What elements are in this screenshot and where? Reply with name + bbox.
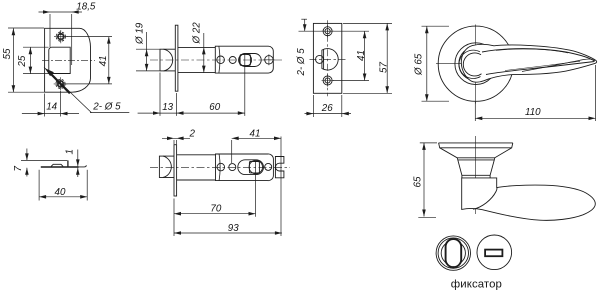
svg-text:93: 93	[228, 223, 239, 234]
svg-text:14: 14	[46, 102, 57, 113]
svg-text:40: 40	[55, 187, 66, 198]
svg-text:18,5: 18,5	[76, 2, 96, 13]
svg-text:41: 41	[250, 128, 261, 139]
svg-text:41: 41	[356, 50, 367, 61]
svg-text:7: 7	[13, 166, 24, 172]
svg-text:60: 60	[209, 102, 220, 113]
svg-text:110: 110	[525, 107, 541, 118]
svg-text:70: 70	[210, 204, 221, 215]
svg-text:65: 65	[412, 176, 423, 187]
svg-text:13: 13	[162, 102, 173, 113]
svg-text:1: 1	[64, 149, 75, 154]
svg-text:Ø 65: Ø 65	[413, 53, 424, 76]
svg-text:26: 26	[321, 103, 333, 114]
svg-text:25: 25	[17, 55, 28, 67]
svg-text:41: 41	[98, 55, 109, 66]
svg-text:2- Ø 5: 2- Ø 5	[296, 48, 307, 77]
svg-text:Ø 22: Ø 22	[192, 22, 203, 45]
svg-text:2: 2	[189, 128, 196, 139]
svg-text:2- Ø 5: 2- Ø 5	[92, 101, 121, 112]
svg-text:фиксатор: фиксатор	[451, 279, 502, 291]
svg-text:55: 55	[2, 48, 13, 59]
svg-text:Ø 19: Ø 19	[135, 22, 146, 45]
svg-text:57: 57	[378, 62, 389, 73]
